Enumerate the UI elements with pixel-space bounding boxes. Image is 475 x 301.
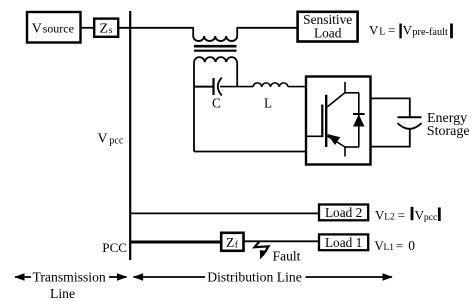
svg-text:Load: Load bbox=[314, 26, 342, 41]
wire Zs to transformer bbox=[118, 27, 194, 29]
transformer T1 primary winding bbox=[193, 28, 237, 41]
IGBT Q1 emitter arrow bbox=[327, 134, 340, 145]
svg-text:L: L bbox=[379, 27, 385, 38]
load box Sensitive Load bbox=[298, 12, 358, 42]
impedance box Zf bbox=[221, 233, 243, 251]
converter box U1 bbox=[306, 77, 371, 165]
wire inductor to converter bbox=[288, 86, 306, 88]
wire bus to Load 2 bbox=[130, 212, 319, 214]
label VL2 = |Vpcc| bbox=[375, 207, 439, 223]
transformer T1 secondary winding bbox=[194, 57, 237, 62]
wire collector top stub bbox=[344, 82, 346, 93]
svg-text:pcc: pcc bbox=[109, 135, 124, 146]
capacitor energy storage bbox=[398, 117, 422, 129]
wire Zf to Load 1 bbox=[244, 240, 320, 242]
wire energy storage bottom bbox=[371, 129, 410, 147]
svg-text:V: V bbox=[98, 131, 108, 146]
svg-text:L: L bbox=[264, 96, 272, 111]
IGBT Q1 body bar bbox=[325, 95, 327, 147]
svg-text:=: = bbox=[398, 208, 405, 223]
wire top rail to diode bbox=[344, 92, 359, 94]
fault arrow bbox=[255, 242, 269, 260]
IGBT Q1 gate bar bbox=[321, 105, 323, 138]
svg-text:V: V bbox=[403, 23, 413, 38]
label Energy Storage bbox=[427, 111, 470, 139]
svg-text:Transmission: Transmission bbox=[33, 270, 106, 285]
svg-text:Storage: Storage bbox=[427, 124, 470, 139]
svg-text:V: V bbox=[32, 21, 42, 36]
load box Load 1 bbox=[319, 234, 368, 250]
IGBT Q1 collector lead bbox=[327, 93, 346, 108]
wire transformer to sensitive load bbox=[237, 27, 298, 29]
impedance box Zs bbox=[94, 19, 118, 37]
label VL = |Vpre-fault| bbox=[369, 23, 452, 39]
wire Vsource to Zs bbox=[81, 27, 94, 29]
transmission line arrow right bbox=[109, 273, 127, 280]
inductor L bbox=[253, 83, 288, 87]
svg-text:C: C bbox=[212, 96, 221, 111]
svg-text:V: V bbox=[369, 23, 379, 38]
wire capacitor to inductor bbox=[220, 86, 253, 88]
svg-text:0: 0 bbox=[408, 238, 415, 253]
distribution line arrow left bbox=[133, 273, 205, 280]
transmission line arrow left bbox=[14, 273, 31, 280]
svg-text:pcc: pcc bbox=[424, 212, 437, 223]
svg-text:Z: Z bbox=[226, 235, 234, 250]
label VL1 = 0 bbox=[374, 238, 415, 253]
capacitor C bbox=[214, 78, 222, 96]
label Transmission Line bbox=[33, 270, 106, 301]
svg-text:s: s bbox=[109, 26, 113, 36]
svg-text:Fault: Fault bbox=[273, 248, 301, 263]
IGBT Q1 gate lead bbox=[307, 135, 322, 137]
wire secondary left leg down bbox=[193, 62, 195, 152]
distribution line arrow right bbox=[306, 273, 393, 280]
svg-text:=: = bbox=[396, 238, 403, 253]
IGBT Q1 emitter lead bbox=[327, 136, 346, 148]
svg-text:L2: L2 bbox=[384, 213, 395, 223]
svg-text:L1: L1 bbox=[384, 243, 395, 253]
wire PCC to Zf (thick) bbox=[130, 241, 221, 244]
svg-text:Distribution Line: Distribution Line bbox=[207, 270, 302, 285]
transformer T1 core bbox=[194, 46, 237, 51]
node PCC bus vertical line bbox=[129, 11, 131, 260]
svg-text:Line: Line bbox=[50, 286, 75, 301]
source box Vsource bbox=[27, 12, 81, 43]
wire filter row left bbox=[194, 86, 213, 88]
svg-text:pre-fault: pre-fault bbox=[412, 27, 448, 38]
svg-text:PCC: PCC bbox=[102, 240, 127, 255]
svg-text:Load 2: Load 2 bbox=[325, 205, 362, 220]
wire secondary right leg down bbox=[236, 62, 238, 87]
wire bottom rail from emitter to diode bbox=[344, 146, 359, 148]
wire return to converter bbox=[194, 151, 306, 153]
label Vpcc bbox=[98, 131, 124, 147]
wire emitter bottom stub bbox=[344, 147, 346, 157]
load box Load 2 bbox=[319, 205, 368, 221]
svg-text:Z: Z bbox=[100, 21, 109, 36]
svg-text:Load 1: Load 1 bbox=[325, 235, 362, 250]
svg-text:=: = bbox=[388, 23, 395, 38]
wire energy storage top bbox=[371, 98, 410, 116]
diode D1 bbox=[353, 93, 365, 147]
svg-text:source: source bbox=[43, 21, 74, 35]
